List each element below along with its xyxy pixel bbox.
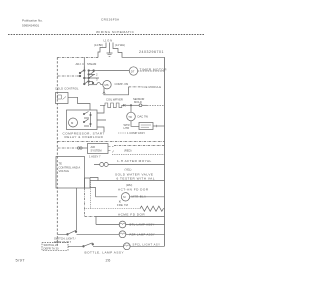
(RED) label (124, 149, 132, 153)
footer date code (16, 258, 26, 263)
control box (88, 144, 109, 154)
lamp 1 (119, 221, 126, 228)
svg-text:DEFR 7A 30: DEFR 7A 30 (44, 246, 59, 250)
wire terminal to bus (142, 104, 147, 106)
svg-text:5/97: 5/97 (16, 258, 26, 263)
motor circle inside box (69, 118, 78, 127)
row to bus dash-dot (114, 145, 165, 147)
relay box label (63, 131, 105, 139)
svg-text:CONTROL AND A: CONTROL AND A (59, 165, 81, 169)
relay contacts inside box (84, 112, 91, 128)
svg-text:VOLTAG: VOLTAG (59, 169, 70, 173)
right neutral bus (164, 57, 166, 246)
lamp row 2 from border (57, 233, 164, 235)
wire L1 from plug (98, 45, 106, 58)
svg-text:DT: DT (131, 69, 135, 73)
fan motor circle (121, 193, 129, 201)
overload protector bump (97, 82, 103, 84)
svg-text:DAC 7W: DAC 7W (138, 115, 149, 119)
thermostat label (138, 115, 149, 119)
note text under module (127, 131, 145, 135)
freezer fan label (117, 203, 129, 207)
svg-text:ICE MODULE: ICE MODULE (143, 85, 162, 89)
svg-text:(RED): (RED) (124, 149, 132, 153)
bottom row wire (68, 245, 165, 247)
water valve coil (100, 163, 104, 167)
defrost timer contact labels (76, 62, 98, 66)
svg-text:(YEL): (YEL) (125, 168, 132, 172)
bottom lamp label (133, 243, 161, 247)
fan motor row (96, 196, 165, 198)
wire N from plug to right bus (113, 45, 165, 57)
svg-text:ACT-AN FD DOR: ACT-AN FD DOR (118, 187, 149, 191)
ground symbol (107, 53, 113, 56)
wire from contacts to timer motor (98, 70, 129, 72)
heater element square-wave (100, 103, 123, 108)
svg-text:FRE 7M: FRE 7M (117, 203, 129, 207)
svg-text:5995424901: 5995424901 (22, 24, 39, 28)
svg-text:CRS26F5A: CRS26F5A (101, 18, 120, 22)
label (14 WH) (115, 43, 125, 47)
(WH) label (126, 183, 132, 187)
header publication text (22, 19, 43, 28)
svg-text:WIRING SCHEMATIC: WIRING SCHEMATIC (96, 30, 135, 34)
cold control dash-dot feed (57, 75, 80, 77)
sensor label block (133, 97, 144, 104)
svg-text:FZR LAMP ASSY: FZR LAMP ASSY (130, 232, 156, 236)
compressor start loop (104, 87, 129, 95)
dotted row (112, 154, 165, 156)
open terminal circle (139, 104, 142, 107)
power cord labels L1 G N (104, 39, 113, 43)
header title WIRING SCHEMATIC (96, 30, 135, 34)
actuator note (118, 187, 149, 191)
svg-text:SYSTEM: SYSTEM (91, 148, 103, 152)
svg-text:L1 G N: L1 G N (104, 39, 113, 43)
svg-text:(14 WH): (14 WH) (115, 43, 125, 47)
svg-text:BTL LAMP ASSY: BTL LAMP ASSY (130, 223, 155, 227)
svg-text:RELAY & OVERLOAD: RELAY & OVERLOAD (65, 135, 104, 139)
heater zigzag (140, 206, 165, 211)
defrost thermostat circle TD (127, 112, 136, 121)
svg-text:1-H AFTER MOYAL: 1-H AFTER MOYAL (117, 159, 152, 163)
timer feed tap (83, 58, 85, 71)
left cabinet dashed border (56, 58, 58, 247)
cold control label (55, 86, 79, 90)
step wire cold box to relay box (68, 97, 90, 110)
svg-text:1 COMP ASSY: 1 COMP ASSY (127, 131, 145, 135)
compressor label (115, 82, 129, 86)
fuse circles (78, 147, 80, 149)
contact blade 4 (84, 81, 93, 84)
svg-text:TE: TE (59, 161, 63, 165)
freezer light switch dashed box (42, 243, 68, 251)
wire to terminal (127, 104, 140, 106)
defrost timer motor circle (129, 67, 137, 75)
compressor relay box (67, 110, 98, 130)
svg-text:SWITCH,LT: SWITCH,LT (44, 243, 59, 247)
connector marks right of box (108, 147, 114, 153)
svg-text:HTR: HTR (124, 126, 130, 130)
svg-text:COMP- ON: COMP- ON (115, 82, 129, 86)
svg-text:26: 26 (106, 258, 112, 263)
water valve label (115, 172, 153, 176)
svg-text:6 TESTER WITH VAL: 6 TESTER WITH VAL (117, 176, 155, 180)
footer page number (106, 258, 112, 263)
compressor circle (103, 81, 111, 89)
header separator dashed rule (8, 34, 205, 36)
bottom note (85, 250, 125, 254)
contact blade 1 (80, 70, 84, 73)
cold control box (56, 93, 69, 104)
bottom lamp (123, 243, 130, 250)
lamp 2 (119, 231, 126, 238)
fuse feed dash-dot (57, 147, 77, 149)
ground wire (109, 45, 111, 53)
heater coil label (106, 98, 123, 102)
wire timer motor to bus (138, 70, 165, 72)
contact row timer motor (89, 70, 98, 72)
svg-text:AIR: AIR (91, 145, 96, 149)
under box note (89, 154, 101, 158)
plug prongs (106, 43, 113, 46)
fan motor label (132, 194, 147, 198)
note row (117, 159, 152, 163)
svg-text:COLD CONTROL: COLD CONTROL (55, 86, 79, 90)
door heater label (118, 212, 145, 216)
(YEL) label (125, 168, 132, 172)
module to bus (153, 125, 165, 127)
defrost timer contact ladder verticals (84, 67, 88, 87)
sub-box wires (90, 178, 98, 197)
svg-text:MS: MS (105, 83, 109, 87)
diagram number 2403296701 (139, 50, 164, 54)
wire L1 dash-dot run to left border (57, 57, 98, 59)
svg-text:ACME FD DOR: ACME FD DOR (118, 212, 145, 216)
switch label (54, 237, 76, 244)
small module box (139, 123, 153, 130)
header model number (101, 18, 120, 22)
arrow under motor (119, 201, 121, 203)
junction arrow (123, 104, 126, 106)
left control box (56, 157, 85, 189)
cold control box internals (58, 95, 67, 100)
bottom switch (84, 243, 93, 247)
row to bus from control assembly (90, 180, 165, 182)
svg-text:Publication No.: Publication No. (22, 19, 43, 23)
svg-text:MOLD: MOLD (134, 100, 142, 104)
label (14 BK) (94, 43, 103, 47)
svg-text:BOTTLE, LAMP ASSY: BOTTLE, LAMP ASSY (85, 250, 125, 254)
timer motor label (140, 67, 168, 71)
svg-text:COIL WRYER: COIL WRYER (106, 98, 123, 102)
ice module label (143, 85, 162, 89)
contact row 3 (84, 75, 99, 78)
compressor feed row (89, 84, 97, 86)
svg-text:ADJ. C: ADJ. C (76, 62, 85, 66)
module text block (124, 123, 130, 130)
contact row 2 (89, 71, 95, 74)
lamp row 1 (96, 224, 165, 226)
left feed verticals (84, 188, 86, 216)
connector sub-box (85, 178, 91, 188)
heater row dotted (85, 208, 141, 210)
svg-text:TD: TD (128, 115, 132, 119)
svg-text:STEAM: STEAM (87, 62, 97, 66)
svg-text:2403296701: 2403296701 (139, 50, 164, 54)
ice module dash-dot wire (129, 86, 143, 88)
light switch (68, 230, 77, 234)
tester note (117, 176, 155, 180)
svg-text:(14 BK): (14 BK) (94, 43, 103, 47)
svg-text:MTR BLA: MTR BLA (132, 194, 147, 198)
relay box stubs right (97, 105, 106, 132)
compartment dash-dot divider (57, 141, 164, 143)
svg-text:1 ASSY 7: 1 ASSY 7 (89, 154, 101, 158)
mullion row (85, 216, 97, 218)
drop to module box (131, 121, 139, 127)
svg-text:SPCL LIGHT ASY: SPCL LIGHT ASY (133, 243, 161, 247)
defrost thermostat drop (130, 105, 132, 112)
svg-text:(WH): (WH) (126, 183, 132, 187)
